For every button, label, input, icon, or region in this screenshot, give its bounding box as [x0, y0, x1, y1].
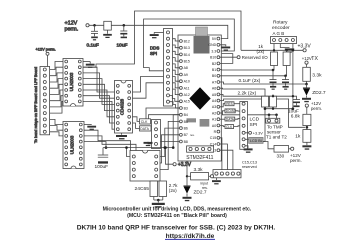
module U1 STM32F411 Black Pill board outline	[178, 35, 221, 161]
svg-text:(2x): (2x)	[257, 49, 265, 54]
wire U2 out1 to U4	[83, 67, 115, 92]
wire B6 to 24C65 pin	[160, 121, 180, 169]
svg-text:B6: B6	[184, 127, 188, 131]
svg-text:https://dk7ih.de: https://dk7ih.de	[166, 233, 215, 240]
junction input node	[186, 175, 188, 177]
wire DDS pin2 to B12	[173, 39, 180, 41]
ground at U2 top right	[83, 62, 95, 68]
svg-text:T1 and T2: T1 and T2	[266, 134, 287, 139]
wire input node vertical	[186, 161, 188, 186]
eeprom U5 24C65	[130, 151, 160, 193]
wire strip pin6 to U2 in6	[50, 90, 63, 101]
ground below R8	[302, 142, 311, 149]
label Rotary encoder	[272, 20, 290, 36]
wire U3 out3 to 24C65 region	[84, 136, 136, 151]
node +12V perm. (top left supply terminal)	[65, 21, 90, 33]
wire DDS pin12 to B3	[170, 102, 180, 108]
capacitor CA 0.1uF	[270, 70, 277, 90]
junction RA bottom	[272, 69, 275, 72]
decoder U4 CD4028	[115, 81, 133, 134]
junction 24C65 rail	[125, 146, 128, 149]
U1 left pin row	[180, 40, 183, 143]
ground at U3 top right	[84, 125, 96, 130]
wire A1 to DATA box	[220, 118, 225, 120]
driver U3 ULN2003	[63, 122, 84, 169]
resistor R10 330 (LCD backlight)	[263, 142, 291, 159]
connector SWD on U1	[187, 146, 214, 152]
label LCD SPI	[250, 116, 260, 127]
wire A4 to divider tap	[220, 99, 305, 127]
node Reserved I/O	[237, 55, 268, 60]
wire B1 to encoder RA bottom	[220, 69, 273, 71]
junction 2.2k right bottom	[272, 108, 274, 110]
label input res.	[201, 182, 209, 190]
wire strip pin4 to U2 in4	[50, 79, 63, 89]
capacitor C5 10uF (3.3V rail)	[288, 100, 300, 115]
wire B2 stub loop	[220, 54, 233, 64]
wire A6 to 2.2k left	[220, 88, 265, 96]
junction TMP line at pin1	[268, 114, 271, 117]
label box DATA	[225, 117, 242, 121]
svg-text:Microcontroller unit for drivi: Microcontroller unit for driving LCD, DD…	[103, 207, 252, 213]
ground at encoder G	[280, 44, 294, 53]
svg-text:res.: res.	[202, 186, 208, 190]
svg-text:A0: A0	[212, 124, 216, 128]
svg-text:2.2k (2x): 2.2k (2x)	[238, 91, 257, 97]
junction RB bottom	[284, 75, 287, 78]
zener diode ZD2 ZD2.7 (input clamp)	[183, 186, 207, 201]
junction on +12V rail at C1	[93, 24, 96, 27]
svg-text:6.8k: 6.8k	[291, 114, 301, 120]
svg-text:LCD BL: LCD BL	[250, 139, 263, 143]
ground at DDS pin1	[150, 32, 164, 38]
junction TMP line at pin2	[275, 114, 278, 117]
svg-text:3.3k: 3.3k	[194, 167, 204, 173]
svg-text:100uF: 100uF	[95, 164, 109, 170]
svg-text:A4: A4	[212, 99, 216, 103]
svg-text:GND: GND	[208, 43, 216, 47]
resistor R6 3.3k	[303, 67, 322, 84]
capacitor C6 100uF	[95, 148, 109, 171]
svg-text:A6: A6	[212, 87, 216, 91]
resistor RA 1k	[271, 52, 278, 70]
svg-text:Rotary: Rotary	[273, 20, 288, 26]
wire TMP sense line	[222, 113, 276, 115]
svg-text:B12: B12	[184, 39, 190, 43]
wire +3.3V feed line	[241, 49, 303, 51]
wire A7 to TX zener node	[220, 82, 307, 84]
connector reserved I/O bottom	[213, 170, 241, 178]
wire B9 to PC connector	[161, 141, 180, 143]
label 1k (2x)	[257, 44, 265, 54]
wire B5 to rail	[173, 115, 179, 148]
svg-text:A7: A7	[212, 80, 216, 84]
svg-text:B3: B3	[184, 106, 188, 110]
junction rail crossing y93	[292, 95, 294, 97]
wire U2 out5 to U4	[83, 90, 115, 117]
wire +3.3V terminal to rail	[166, 148, 174, 165]
wire U2 out2 to U4	[83, 73, 115, 98]
resistor R4 2.2k	[262, 96, 269, 109]
capacitor CB 0.1uF	[282, 76, 289, 90]
svg-text:To band relays on BPF Board an: To band relays on BPF Board and LPF Boar…	[34, 67, 38, 143]
svg-text:(2x): (2x)	[169, 188, 177, 193]
label 2.7k (2x)	[169, 183, 178, 193]
wire strip pin8 to U2 in8	[50, 101, 63, 113]
junction encoder rail	[292, 49, 295, 52]
wire C15 to reserved connector	[220, 138, 222, 170]
wire B4 to DATA net	[149, 115, 180, 119]
component F1 (series box on +12V rail)	[103, 21, 112, 38]
svg-text:B2: B2	[212, 62, 216, 66]
net label: To band relays on BPF Board and LPF Board (vertical)	[34, 67, 38, 143]
wire outer routing loop (ULN2003 COM to encoder 3.3V line)	[83, 11, 241, 67]
wire 2.2k bottoms to 3.3V rail	[265, 108, 293, 110]
wire DDS pin3 to B13	[173, 45, 180, 48]
svg-text:A15: A15	[184, 100, 190, 104]
label box LCD BL	[245, 137, 263, 143]
wire strip pin9 to U3 in1	[50, 119, 63, 124]
wire B0 to encoder RB bottom	[220, 75, 286, 77]
wire A3 to RES box	[220, 104, 225, 107]
connector PC	[152, 120, 161, 155]
wire DDS pin11 to A15	[170, 95, 180, 101]
ground at PC connector	[144, 142, 153, 146]
wire B8 to 24C65 pin	[160, 135, 180, 163]
svg-text:3.3: 3.3	[211, 49, 216, 53]
connector TMP sensors	[266, 115, 280, 123]
wire +12V rail to 5V pin	[89, 25, 228, 38]
svg-text:330: 330	[277, 153, 285, 158]
button B2 on U1	[200, 119, 210, 127]
wire DDS pin4 to B14	[173, 51, 180, 54]
svg-text:ZD2.7: ZD2.7	[194, 189, 207, 195]
svg-text:DATA: DATA	[140, 127, 149, 131]
node +12V TX	[302, 56, 319, 68]
connector J1 band relays strip	[40, 67, 50, 135]
svg-text:CD4028: CD4028	[120, 98, 125, 115]
wire LCD BL to 3.3V rail	[263, 109, 265, 142]
resistor R5 2.2k	[270, 94, 277, 108]
wire U3 out4 to supply rail	[84, 142, 106, 148]
svg-text:ZD2.7: ZD2.7	[312, 90, 326, 96]
wire U3 out2 to 24C65 region	[84, 130, 131, 150]
svg-text:B13: B13	[184, 46, 190, 50]
wire CD4028 out2 to DDS area	[133, 77, 164, 93]
svg-text:0.1uF: 0.1uF	[87, 43, 99, 49]
svg-text:C15: C15	[210, 136, 216, 140]
svg-text:B14: B14	[184, 53, 190, 57]
svg-text:C15,C13: C15,C13	[242, 160, 257, 164]
svg-text:perm.: perm.	[311, 106, 322, 111]
wire C13 to reserved connector	[220, 150, 233, 169]
svg-text:ULN2003: ULN2003	[70, 135, 75, 154]
svg-text:A8: A8	[184, 66, 188, 70]
ground at LCD pin7	[244, 146, 253, 153]
resistor RB 1k	[283, 50, 290, 76]
svg-text:CLK: CLK	[226, 125, 233, 129]
svg-text:RES: RES	[226, 102, 233, 106]
junction rail at x173.2	[172, 146, 175, 149]
svg-text:A10: A10	[184, 80, 190, 84]
wire U2 out3 to U4	[83, 79, 115, 105]
wire A0 to CLK box	[220, 125, 225, 126]
junction U3 out4 rail	[105, 146, 108, 149]
label box DATA (DDS control)	[140, 126, 152, 131]
wire U2 out7 to U4	[83, 101, 115, 129]
wire A2 to DC/A0 box and TMP line	[220, 111, 225, 113]
label To TMP sensor T1 and T2	[266, 125, 287, 140]
wire DDS pin6 to A8	[173, 64, 180, 68]
wire second routing loop (3.3V pin to DDS supply)	[144, 19, 235, 71]
svg-text:A1: A1	[212, 118, 216, 122]
ground at U1 GND pin	[220, 45, 230, 51]
junction 2.2k left bottom	[264, 107, 267, 110]
junction divider tap	[306, 126, 309, 129]
svg-text:A2: A2	[212, 111, 216, 115]
label box DC/A0	[225, 109, 242, 113]
svg-text:B0: B0	[212, 74, 216, 78]
MCU chip diamond on U1	[189, 87, 210, 109]
svg-text:STM32F411: STM32F411	[186, 155, 213, 161]
svg-text:B7: B7	[184, 133, 188, 137]
svg-text:10uF: 10uF	[117, 43, 128, 49]
wire U2 out6 to U4	[83, 96, 115, 123]
USB connector on U1 (dark part)	[194, 36, 210, 54]
wire strip pin2 to U2 in2	[50, 67, 63, 76]
wire DDS pin9 to A11	[173, 83, 180, 88]
wire C14 to reserved connector	[220, 144, 228, 170]
resistor R11 2.7k	[150, 181, 158, 200]
wire 24C65 pin1 to rail	[127, 148, 131, 157]
junction rail at x165.5	[164, 146, 167, 149]
svg-text:B1: B1	[212, 68, 216, 72]
junction on +12V rail at F1	[106, 24, 109, 27]
zener diode ZD1 ZD2.7	[302, 84, 326, 102]
capacitor C1 0.1uF	[87, 25, 99, 48]
caption link	[165, 233, 215, 240]
wire encoder A down	[273, 44, 275, 51]
ground below 2.7k pair	[152, 199, 165, 208]
junction rail bottom	[292, 107, 295, 110]
capacitor C2 10uF	[117, 25, 128, 48]
wire CD4028 to CLK box	[133, 117, 140, 122]
wire supply rail y=147.6	[103, 147, 173, 149]
svg-text:res.: res.	[190, 133, 195, 137]
svg-text:3.3k: 3.3k	[312, 73, 322, 79]
svg-text:B5: B5	[184, 120, 188, 124]
wire strip pin5 to U2 in5	[50, 84, 63, 94]
svg-text:ULN2003: ULN2003	[69, 72, 74, 91]
node +3.3V (encoder)	[298, 44, 312, 52]
svg-text:10uF: 10uF	[288, 108, 299, 114]
wire strip pin7 to U2 in7	[50, 96, 63, 107]
svg-text:TX: TX	[311, 56, 318, 62]
wire DDS pin7 to A9	[173, 70, 180, 74]
wire strip pin11 to U3 in3	[50, 132, 63, 136]
label box RES	[225, 102, 242, 106]
wire strip pin3 to U2 in3	[50, 73, 63, 82]
ground at reserved connector pin1	[212, 178, 221, 185]
wire DDS pin5 to B15	[173, 58, 180, 62]
svg-text:SPI: SPI	[150, 51, 157, 56]
driver U2 ULN2003	[63, 59, 83, 107]
connector LCD SPI	[240, 102, 248, 150]
node LCD +3.3V pin	[245, 131, 263, 135]
wire B10 to Reserved I/O	[220, 56, 237, 58]
node +3.3V (bottom left of board)	[173, 162, 192, 168]
svg-text:B8: B8	[184, 140, 188, 144]
svg-text:A12: A12	[184, 93, 190, 97]
svg-text:A G B: A G B	[273, 31, 285, 36]
svg-text:perm.: perm.	[65, 27, 79, 33]
svg-text:+3.3V: +3.3V	[178, 162, 192, 168]
connector DDS SP	[150, 29, 173, 107]
svg-text:A9: A9	[184, 73, 188, 77]
svg-text:B10: B10	[210, 56, 216, 60]
svg-text:DDS: DDS	[150, 46, 159, 51]
svg-text:+12V perm.: +12V perm.	[36, 46, 56, 51]
resistor R12 2.7k	[159, 181, 167, 200]
wire DDS pin10 to A12	[173, 89, 180, 95]
node +12V perm. (backlight)	[290, 147, 302, 163]
svg-text:reserved: reserved	[242, 165, 257, 169]
ground below U4	[116, 133, 127, 139]
junction TX node	[305, 83, 308, 86]
junction RB top	[285, 49, 287, 51]
resistor R7 6.8k	[291, 114, 311, 130]
resistor R9 3.3k input	[187, 167, 210, 180]
U1 right pin row	[217, 37, 220, 151]
svg-text:DK7IH 10 band QRP HF transceiv: DK7IH 10 band QRP HF transceiver for SSB…	[77, 225, 276, 232]
svg-text:B4: B4	[184, 113, 188, 117]
node +12V perm. (divider)	[305, 101, 322, 115]
svg-text:0.1uF (2x): 0.1uF (2x)	[239, 78, 261, 84]
svg-text:(MCU: STM32F411 on "Black Pill: (MCU: STM32F411 on "Black Pill" board)	[127, 213, 227, 219]
wire B3 to CLK net	[146, 108, 180, 119]
svg-text:1k: 1k	[295, 134, 301, 140]
svg-text:+3.3V: +3.3V	[253, 131, 263, 135]
U1 left pin labels	[184, 39, 195, 144]
svg-text:24C65: 24C65	[135, 186, 150, 192]
wire encoder 4th pin / 3.3V rail down right side	[292, 44, 294, 109]
junction R5 top	[272, 95, 274, 97]
node +12V perm. (left band relay supply)	[36, 46, 56, 66]
svg-text:+3.3V: +3.3V	[298, 44, 312, 50]
wire A5 to 10uF node	[220, 94, 297, 99]
wire CD4028 out3 to DDS area	[133, 83, 164, 98]
resistor R8 1k	[295, 130, 311, 143]
svg-text:A11: A11	[184, 86, 190, 90]
USB connector on U1 (light part)	[196, 27, 208, 36]
node input terminal	[210, 175, 213, 178]
junction on +12V rail at C2	[123, 24, 126, 27]
wire U2 out4 to U4	[83, 84, 115, 110]
wire strip pin10 to U3 in2	[50, 126, 63, 131]
svg-text:B15: B15	[184, 60, 190, 64]
U1 right pin labels	[208, 37, 216, 153]
svg-text:A5: A5	[212, 93, 216, 97]
junction rail at x164.8	[164, 146, 167, 149]
label C15,C13 reserved	[242, 160, 257, 169]
svg-text:5V: 5V	[212, 37, 217, 41]
wire strip pin1 to U2 in1	[50, 62, 63, 70]
svg-text:DC/A0: DC/A0	[226, 109, 236, 113]
button B1 on U1	[187, 118, 197, 122]
svg-text:Reserved I/O: Reserved I/O	[242, 55, 268, 60]
wire CD4028 to DATA box	[133, 123, 140, 128]
wire B7 to 24C65 pin	[160, 128, 180, 156]
wire DDS pin8 to A10	[173, 77, 180, 82]
svg-text:A3: A3	[212, 105, 216, 109]
label box CLK	[225, 125, 242, 129]
connector rotary encoder	[271, 37, 297, 44]
junction RA top	[273, 49, 275, 51]
svg-text:perm.: perm.	[290, 158, 302, 163]
svg-text:LCD: LCD	[250, 116, 260, 122]
svg-text:CLK: CLK	[141, 120, 148, 124]
svg-text:DATA: DATA	[226, 117, 235, 121]
svg-text:SPI: SPI	[250, 122, 258, 128]
label box CLK (DDS control)	[140, 119, 151, 124]
